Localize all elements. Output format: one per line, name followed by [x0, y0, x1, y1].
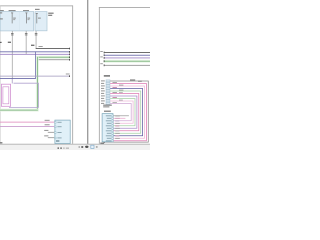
pin text 2 [57, 126, 61, 127]
connector mark a [25, 32, 28, 35]
box pin cell 1 [112, 115, 114, 117]
fuse block 2 [35, 12, 47, 31]
zoom slider knob [85, 146, 88, 148]
wire navy start tick [103, 54, 106, 56]
box pin text 6 [107, 128, 111, 129]
connector C2 label [8, 42, 11, 43]
connector mark d [35, 34, 38, 37]
pager prev button [60, 147, 62, 149]
wire label 1 [45, 120, 50, 121]
box pin cell 7 [112, 130, 114, 132]
connector C2 mark a [11, 32, 14, 35]
box wire label 5 [115, 133, 120, 134]
left page right border [71, 5, 74, 143]
wire code label 1 [113, 82, 117, 83]
box pin text 2 [107, 118, 111, 119]
wire navy lower horizontal [0, 77, 36, 80]
strip pin cell 3 [106, 85, 110, 87]
green lower horizontal halo [0, 109, 39, 112]
box wire label extra3 [115, 130, 119, 131]
fuse F5 value [38, 18, 41, 19]
page footer text right [100, 143, 104, 144]
wire row1 gray [105, 81, 149, 142]
zoom minus glyph [81, 146, 83, 148]
wire lavender stub into box [11, 79, 14, 84]
strip pin cell 9 [106, 100, 110, 102]
wire gray short [48, 131, 55, 134]
connector mark b [25, 34, 28, 37]
box wire label 2 [115, 118, 120, 119]
box pin text 11 [106, 140, 111, 141]
connector box label [104, 111, 111, 112]
wire row9 pink2 [110, 101, 133, 123]
box pin text 9 [106, 135, 111, 136]
row label 5 [101, 90, 105, 91]
box pin text 10 [107, 138, 111, 139]
pin tick purple wire [68, 54, 71, 56]
strip pin cell 4 [106, 87, 110, 89]
wire navy vertical [34, 51, 37, 78]
connector box C437 [55, 120, 70, 143]
wire code label extra3 [113, 102, 117, 103]
wire start label 2 [100, 56, 103, 57]
wire stub from F2 [11, 31, 14, 84]
box pin cell 9 [112, 135, 114, 137]
fuse F1 top tick [11, 12, 13, 15]
box bottom label [56, 140, 59, 141]
pin tick navy wire [68, 51, 71, 53]
box pin text 1 [106, 115, 111, 116]
wire gray horizontal [38, 58, 70, 61]
wire row3 pink2 [110, 86, 144, 138]
page footer text left [0, 142, 2, 143]
fuse F2 [25, 13, 28, 24]
wire purple horizontal [0, 53, 70, 56]
row label 4 [101, 88, 104, 89]
mega fuse label line1 [48, 13, 53, 14]
fuse block (underhood fuse box) [0, 12, 33, 31]
edge label [0, 42, 2, 43]
green vertical halo [36, 56, 39, 111]
wire code label 2 [113, 87, 117, 88]
fuse F1 value line2 [13, 18, 15, 21]
pin tick lavender-gray wire [68, 75, 71, 77]
box pin text 5 [106, 125, 111, 126]
pin tick green wire [68, 56, 71, 58]
wire start label 3 [100, 62, 103, 65]
wire green horizontal [36, 56, 70, 59]
left page top border [0, 4, 73, 7]
wire start label 1 [100, 51, 103, 52]
box pin text 7 [106, 130, 111, 131]
relay box inner [3, 87, 9, 104]
fuse label 3 [23, 10, 29, 11]
connector mark c [35, 32, 38, 35]
box pin cell 10 [112, 138, 114, 140]
connector text below strip line2 [103, 106, 109, 107]
right page left border [98, 7, 101, 144]
pin tick black wire [68, 48, 71, 50]
strip pin cell 7 [106, 95, 110, 97]
wire green lower horizontal [0, 109, 38, 112]
wire row4 navy [110, 89, 142, 136]
box wire label 4 [115, 127, 120, 130]
wire label 2 [45, 124, 50, 125]
fuse label 2 [9, 10, 16, 11]
wire purple horizontal [105, 57, 150, 60]
wire navy horizontal [105, 54, 150, 57]
mega fuse label line2 [48, 15, 52, 16]
wire end label [66, 74, 70, 75]
row label 1 [101, 80, 105, 81]
box pin cell 6 [112, 128, 114, 130]
box wire label extra2 [115, 125, 119, 126]
wire row8 green [110, 99, 135, 126]
pager first button [58, 147, 60, 149]
box wire label extra4 [115, 135, 119, 136]
box wire label extra1 [115, 120, 119, 121]
bundle top label [130, 79, 135, 80]
box wire label 6 [115, 138, 120, 139]
connector text below strip line1 [103, 105, 112, 106]
strip pin cell 8 [106, 97, 110, 99]
connector box C420 [102, 114, 113, 142]
pager sep [63, 147, 66, 149]
connector C410 label [104, 75, 110, 76]
fuse F2 top tick [25, 12, 27, 15]
right page top border [99, 6, 150, 9]
pager text [66, 148, 69, 149]
row label 7 [101, 95, 105, 96]
pin tick gray wire [68, 59, 71, 61]
box pin cell 4 [112, 123, 114, 125]
pin text 4 [57, 137, 61, 138]
wire stub from F4 [25, 31, 28, 55]
box pin cell 3 [112, 120, 114, 122]
fuse F2 value [28, 18, 31, 19]
pin text 3 [57, 132, 61, 133]
bottom toolbar band [0, 145, 150, 150]
row label 10 [101, 103, 104, 104]
row label 2 [101, 83, 104, 84]
wire box row1 stub [113, 114, 128, 117]
box pin cell 5 [112, 125, 114, 127]
wire green vertical [36, 57, 39, 111]
wire lavender-gray lower horizontal [0, 75, 70, 78]
green wire highlight halo [36, 56, 71, 59]
wire box row2 stub [113, 117, 125, 120]
wire code label 4 [113, 97, 117, 98]
wire gray start tick [103, 64, 106, 66]
zoom plus glyph [96, 146, 98, 148]
row label 6 [101, 93, 104, 94]
wire row6 pink [110, 94, 139, 131]
fuse box cell divider [18, 12, 20, 31]
box pin cell 2 [112, 118, 114, 120]
strip pin cell 2 [106, 82, 110, 84]
wire row2 pink [110, 84, 146, 141]
box wire label 3 [115, 123, 120, 124]
fuse label 1 [0, 10, 4, 11]
pin cell 4 [54, 137, 56, 139]
wire gray short 2 [48, 136, 55, 139]
wire black start tick [103, 52, 106, 54]
pin cell 1 [54, 122, 56, 124]
page number box [91, 145, 94, 148]
wire green horizontal [105, 60, 150, 63]
box wire label 1 [115, 115, 120, 116]
fuse F1 value [13, 18, 16, 19]
wire gray horizontal [105, 64, 150, 67]
box pin text 3 [106, 120, 111, 121]
wire lavender horizontal [0, 125, 55, 128]
fuse label 5 line1 [35, 9, 40, 10]
wire code label extra2 [119, 100, 123, 101]
connector C1 label [31, 45, 34, 46]
green halo right page [103, 60, 150, 63]
fuse F2 value line2 [28, 18, 30, 21]
wire black horizontal [36, 47, 70, 50]
pin cell 2 [54, 126, 56, 128]
wire navy horizontal [0, 50, 70, 53]
zoom dot [79, 146, 80, 147]
box pin cell 11 [112, 140, 114, 142]
wire row1 end tick [103, 141, 106, 143]
toolbar top edge line [0, 144, 150, 145]
fuse edge partial marks [0, 18, 3, 19]
wire code label 3 [113, 92, 117, 93]
row label 3 [101, 85, 105, 86]
pin text 1 [57, 122, 61, 123]
row label 9 [101, 100, 105, 101]
wire row10 lavender [110, 104, 131, 121]
wire code label extra1 [119, 92, 123, 93]
box pin text 4 [107, 123, 111, 124]
connector C2 mark b [11, 34, 14, 37]
wire row5 green [110, 91, 141, 133]
wire code label 6 [119, 90, 123, 91]
wire code label 5 [119, 85, 123, 86]
row label 8 [101, 98, 104, 99]
wire label 4 [44, 135, 48, 136]
lavender component outline [9, 83, 38, 107]
strip pin cell 5 [106, 90, 110, 92]
fuse F5 [36, 13, 39, 23]
fuse F1 [11, 13, 14, 24]
fuse edge partial text [0, 12, 2, 13]
fuse F5 top tick [36, 12, 38, 15]
page divider [87, 0, 88, 144]
wire green start tick [103, 60, 106, 62]
strip pin cell 6 [106, 92, 110, 94]
box pin cell 8 [112, 133, 114, 135]
wire pink horizontal [0, 121, 55, 124]
left page left border [0, 5, 2, 143]
wire black label [39, 46, 43, 47]
wire label 3 [44, 130, 48, 131]
strip pin cell 10 [106, 102, 110, 104]
box pin text 8 [107, 133, 111, 134]
wire purple start tick [103, 57, 106, 59]
strip pin cell 1 [106, 80, 110, 82]
wire row7 purple [110, 96, 137, 128]
wire stub from F5 [35, 31, 38, 49]
relay box outer [1, 84, 10, 106]
bundle top label 2 [138, 81, 142, 82]
pin cell 3 [54, 132, 56, 134]
wire black horizontal [105, 51, 150, 54]
